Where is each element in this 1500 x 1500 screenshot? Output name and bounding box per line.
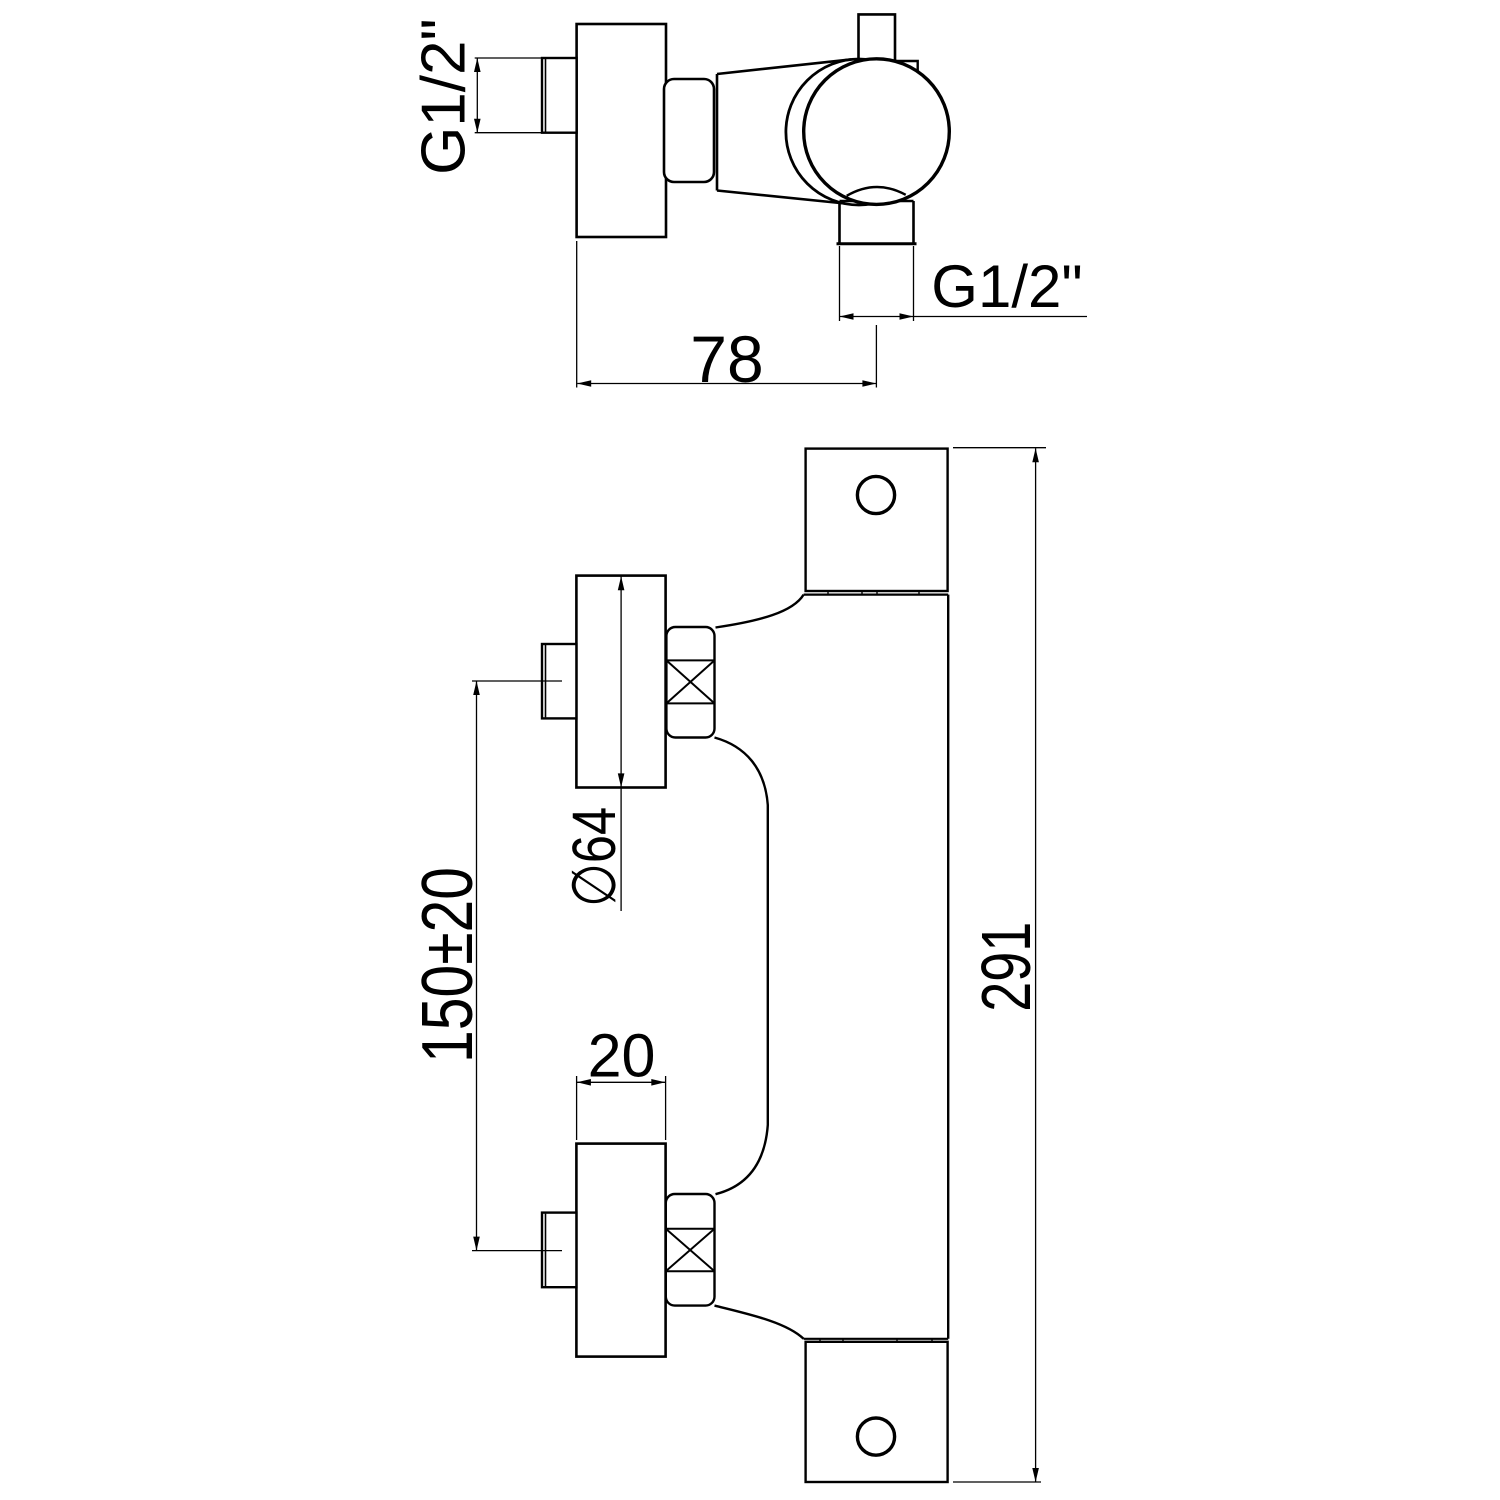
knob face ellipse (second circle) — [786, 59, 932, 205]
dimension: 291 — [953, 448, 1046, 1482]
svg-text:G1/2": G1/2" — [410, 18, 479, 174]
lower knob (front) — [576, 1144, 665, 1357]
body shoulder behind knob — [895, 61, 918, 73]
dimension: diameter 64 — [620, 576, 622, 911]
svg-text:291: 291 — [967, 922, 1045, 1012]
bottom screw hole — [857, 1418, 894, 1455]
dimension: G1/2" (top-left) — [475, 58, 542, 133]
dimension: 150 +/- 20 — [472, 681, 562, 1251]
top mounting bracket — [806, 449, 948, 591]
wall plate (escutcheon) — [577, 24, 666, 237]
seam tick marks (bottom) — [820, 1339, 932, 1341]
body left contour: between cartridges — [715, 738, 768, 1195]
handle stem — [859, 14, 896, 62]
cone body (trapezoid) — [717, 59, 851, 203]
dimension: 78 — [577, 241, 877, 388]
body bottom edge double line — [804, 1338, 949, 1340]
inlet nipple (top view) — [542, 58, 577, 133]
upper cartridge (X box) — [666, 627, 714, 738]
body right edge — [947, 595, 949, 1339]
svg-text:G1/2": G1/2" — [931, 253, 1082, 320]
bottom mounting bracket — [806, 1342, 948, 1482]
svg-text:∅64: ∅64 — [560, 807, 628, 907]
sphere/outlet intersection arc — [847, 187, 906, 196]
svg-text:20: 20 — [588, 1022, 656, 1090]
outlet bottom lip — [837, 242, 917, 245]
lower nipple (front) — [542, 1213, 576, 1288]
body left contour: S-curve to upper cartridge — [716, 595, 804, 628]
svg-text:78: 78 — [690, 322, 763, 396]
upper knob (front) — [576, 576, 665, 788]
body left contour: S-curve to bottom bracket — [715, 1306, 804, 1339]
lower cartridge (X box) — [666, 1194, 715, 1306]
dimension: 20 — [577, 1076, 666, 1140]
seam tick marks (top) — [828, 592, 919, 595]
knob rim circle — [804, 59, 950, 205]
top screw hole — [857, 476, 894, 513]
nut (top view) — [664, 79, 714, 182]
svg-text:150±20: 150±20 — [408, 867, 488, 1063]
upper nipple (front) — [542, 644, 576, 718]
body top edge double line — [804, 593, 949, 595]
dimension: G1/2" (outlet, top view) — [840, 246, 1088, 321]
outlet port rect — [840, 201, 914, 244]
